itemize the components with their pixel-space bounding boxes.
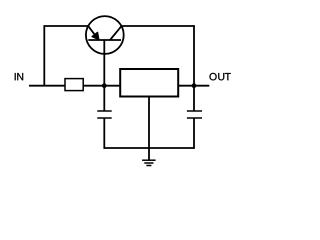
regulator U (IC box) bbox=[120, 69, 178, 97]
capacitor C1 (input) top plate bbox=[97, 110, 111, 112]
node B junction dot (OUT node) bbox=[192, 83, 197, 88]
wire: C1 bottom to ground rail bbox=[103, 118, 105, 149]
wire: right vertical from top rail down to OUT node bbox=[193, 25, 195, 111]
node OUT label (glyph T) bbox=[225, 73, 231, 80]
ground symbol line 1 bbox=[142, 159, 156, 161]
ground symbol line 3 bbox=[146, 165, 151, 167]
wire: regulator output to OUT node bbox=[178, 85, 209, 87]
capacitor C1 (input) bottom plate bbox=[97, 117, 111, 119]
transistor Q (PNP pass transistor) circle bbox=[86, 16, 124, 54]
wire: resistor to regulator input bbox=[83, 85, 120, 87]
wire: regulator ground lead down to rail and ground stem bbox=[148, 97, 150, 161]
wire: C2 bottom to ground rail bbox=[193, 118, 195, 149]
transistor collector diagonal (right) bbox=[110, 26, 122, 40]
node A junction dot (regulator input node) bbox=[102, 83, 107, 88]
capacitor C2 (output) top plate bbox=[187, 110, 202, 112]
ground symbol line 2 bbox=[144, 162, 153, 164]
transistor base bar bbox=[88, 39, 121, 41]
wire: transistor base lead down to node A bbox=[103, 40, 105, 111]
capacitor C2 (output) bottom plate bbox=[187, 117, 202, 119]
wire: top rail right segment from transistor collector bbox=[121, 25, 194, 27]
node OUT label (glyph O) bbox=[209, 73, 216, 80]
node IN label (glyph I) bbox=[14, 73, 17, 80]
transistor emitter arrowhead (PNP, pointing to base) bbox=[92, 32, 99, 39]
wire: ground rail (bottom horizontal) bbox=[104, 147, 195, 149]
node IN label (glyph N) bbox=[17, 73, 23, 80]
wire: left vertical riser from IN line up to top rail bbox=[43, 25, 45, 86]
resistor (series input resistor) bbox=[65, 79, 83, 91]
transistor emitter diagonal (left) bbox=[88, 26, 99, 40]
node OUT label (glyph U) bbox=[218, 73, 224, 80]
wire: IN stub to resistor bbox=[29, 85, 65, 87]
wire: top rail left segment to transistor emitter bbox=[44, 25, 89, 27]
